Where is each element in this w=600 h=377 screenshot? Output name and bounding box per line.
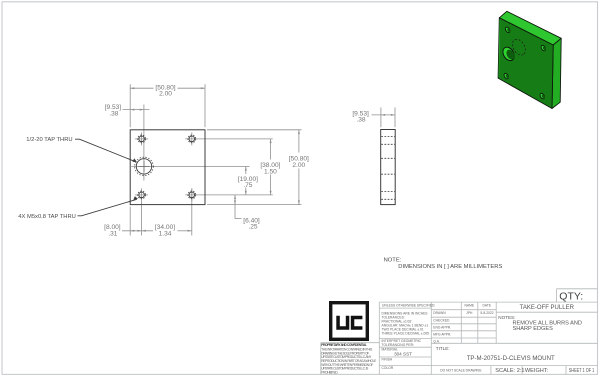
- svg-text:CHECKED: CHECKED: [433, 318, 450, 322]
- svg-text:ENG APPR.: ENG APPR.: [433, 325, 451, 329]
- svg-text:.31: .31: [108, 230, 117, 237]
- svg-text:NOTE:: NOTE:: [384, 258, 402, 264]
- svg-text:TAKE-OFF PULLER: TAKE-OFF PULLER: [520, 305, 575, 311]
- svg-text:5-8-2022: 5-8-2022: [480, 311, 493, 315]
- svg-text:SHEET 1 OF 1: SHEET 1 OF 1: [569, 368, 595, 374]
- svg-text:4X M5x0.8 TAP THRU: 4X M5x0.8 TAP THRU: [18, 214, 76, 220]
- svg-text:THREE PLACE DECIMAL ±.005: THREE PLACE DECIMAL ±.005: [382, 332, 430, 336]
- svg-text:SHARP EDGES: SHARP EDGES: [513, 326, 554, 332]
- svg-text:2.00: 2.00: [292, 162, 305, 169]
- svg-text:1/2-20 TAP THRU: 1/2-20 TAP THRU: [26, 137, 72, 143]
- svg-text:NOTES:: NOTES:: [498, 315, 515, 320]
- svg-text:COLOR: COLOR: [382, 366, 394, 370]
- svg-text:Q.A.: Q.A.: [433, 339, 440, 343]
- svg-text:DRAWN: DRAWN: [433, 311, 446, 315]
- svg-text:304 SST: 304 SST: [394, 351, 412, 356]
- svg-text:DO NOT SCALE DRAWING: DO NOT SCALE DRAWING: [440, 368, 482, 372]
- svg-text:TITLE:: TITLE:: [436, 346, 450, 351]
- svg-text:NAME: NAME: [465, 304, 475, 308]
- svg-text:DATE: DATE: [483, 304, 492, 308]
- svg-text:DIMENSIONS IN [ ] ARE MILLIMET: DIMENSIONS IN [ ] ARE MILLIMETERS: [398, 264, 502, 270]
- svg-text:MFG APPR.: MFG APPR.: [433, 333, 451, 337]
- svg-text:.75: .75: [243, 182, 252, 189]
- svg-text:SCALE: 2:1: SCALE: 2:1: [495, 368, 524, 374]
- svg-text:1.34: 1.34: [159, 230, 172, 237]
- svg-text:.38: .38: [109, 111, 118, 118]
- svg-text:JPH: JPH: [466, 311, 473, 315]
- svg-text:TOLERANCING PER:: TOLERANCING PER:: [382, 343, 414, 347]
- svg-text:1.50: 1.50: [264, 168, 277, 175]
- svg-text:QTY:: QTY:: [559, 290, 583, 302]
- svg-text:WEIGHT:: WEIGHT:: [525, 368, 549, 374]
- svg-text:.25: .25: [248, 224, 257, 231]
- svg-text:TP-M-20751-D-CLEVIS MOUNT: TP-M-20751-D-CLEVIS MOUNT: [467, 355, 555, 362]
- svg-text:2.00: 2.00: [159, 91, 172, 98]
- svg-text:PROHIBITED.: PROHIBITED.: [321, 370, 338, 374]
- svg-text:PROPRIETARY AND CONFIDENTIAL: PROPRIETARY AND CONFIDENTIAL: [321, 343, 367, 347]
- svg-text:UNLESS OTHERWISE SPECIFIED:: UNLESS OTHERWISE SPECIFIED:: [382, 303, 435, 307]
- svg-text:FINISH: FINISH: [382, 357, 393, 361]
- svg-text:.38: .38: [356, 117, 365, 124]
